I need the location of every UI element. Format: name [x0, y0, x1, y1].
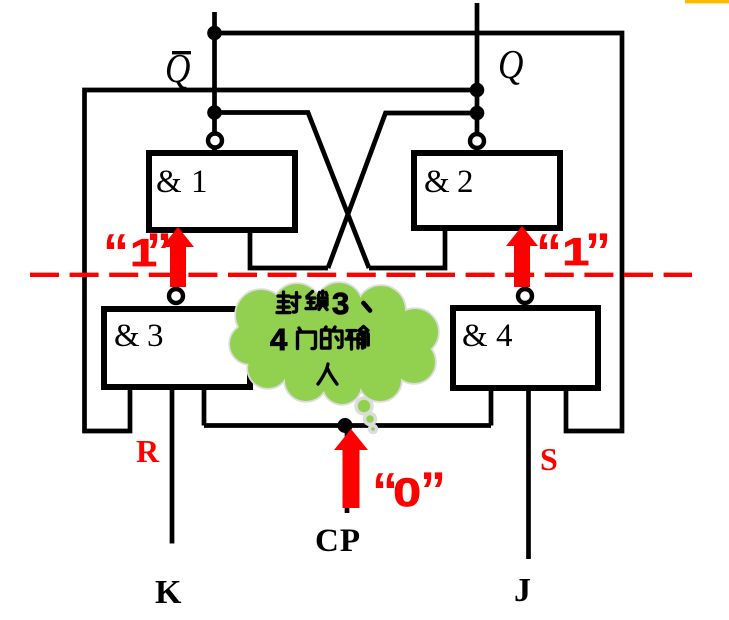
svg-text:3: 3 — [332, 286, 349, 321]
svg-text:R: R — [136, 433, 160, 469]
svg-text:3: 3 — [147, 318, 164, 354]
svg-text:”: ” — [146, 223, 172, 281]
svg-text:CP: CP — [315, 523, 361, 559]
svg-text:0: 0 — [393, 470, 421, 515]
svg-text:“: “ — [536, 224, 562, 282]
svg-text:1: 1 — [191, 164, 208, 200]
svg-text:J: J — [514, 572, 531, 609]
svg-text:”: ” — [420, 462, 446, 520]
svg-text:K: K — [155, 574, 182, 611]
svg-text:&: & — [462, 318, 488, 354]
svg-text:4: 4 — [496, 318, 513, 354]
svg-text:2: 2 — [457, 164, 474, 200]
svg-text:Q: Q — [498, 42, 524, 87]
svg-text:&: & — [156, 164, 182, 200]
svg-text:“: “ — [103, 224, 129, 282]
svg-text:”: ” — [585, 223, 611, 281]
svg-text:4: 4 — [270, 322, 288, 357]
svg-text:&: & — [424, 164, 450, 200]
svg-text:&: & — [114, 318, 140, 354]
svg-text:S: S — [540, 441, 558, 477]
